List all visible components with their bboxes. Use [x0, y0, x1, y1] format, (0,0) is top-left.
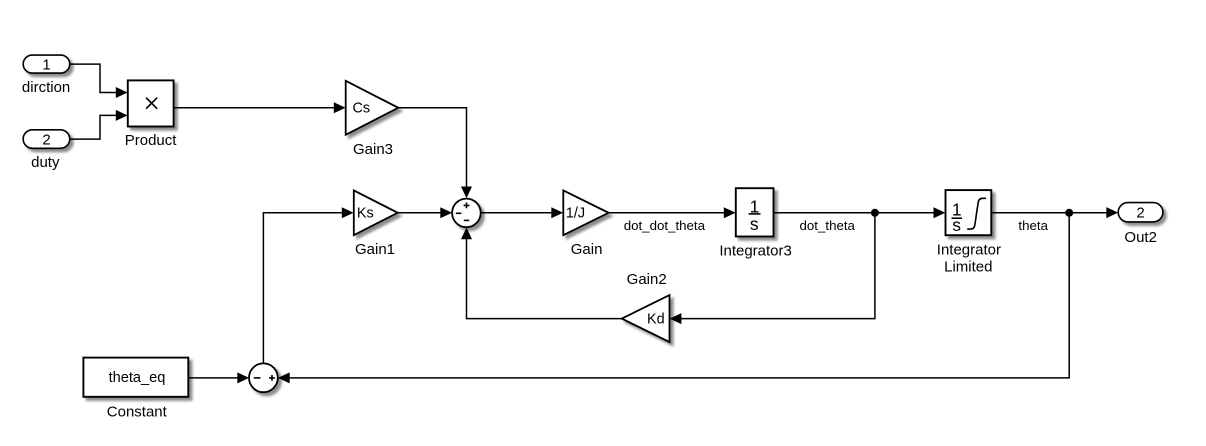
svg-text:theta_eq: theta_eq	[109, 370, 166, 386]
svg-text:s: s	[952, 215, 961, 235]
wire Constant to Sum2 left	[188, 372, 249, 383]
outport Out2 (oval)	[1118, 203, 1163, 222]
wire Sum1 to Gain	[481, 207, 563, 218]
inport 2 (oval)	[23, 130, 69, 149]
junction theta node	[1065, 209, 1073, 217]
label Integrator Limited (2 lines)	[937, 242, 1001, 276]
svg-text:1/J: 1/J	[566, 205, 585, 221]
gain Gain3 (Cs)	[346, 81, 399, 135]
wire Gain1 to Sum1 left	[398, 207, 452, 218]
sum Sum2	[249, 363, 278, 392]
gain Gain1 (Ks)	[354, 190, 398, 235]
wire inport2 to Product port2	[70, 110, 128, 139]
svg-text:dirction: dirction	[22, 79, 70, 96]
wire Integrator3 to Integrator Limited	[774, 207, 946, 218]
sum Sum1	[452, 199, 481, 228]
svg-text:Cs: Cs	[353, 101, 371, 117]
wire inport1 to Product port1	[70, 64, 128, 98]
svg-text:dot_theta: dot_theta	[800, 218, 856, 233]
wire junction dot_theta down to Gain2 input	[670, 213, 875, 324]
svg-text:Product: Product	[125, 132, 178, 149]
svg-text:Gain: Gain	[571, 241, 603, 258]
svg-text:Limited: Limited	[944, 259, 992, 276]
Integrator Limited block	[946, 190, 992, 235]
svg-text:Gain3: Gain3	[353, 141, 393, 158]
svg-text:2: 2	[42, 131, 50, 148]
Constant block theta_eq	[83, 358, 188, 397]
svg-text:Kd: Kd	[647, 311, 665, 327]
svg-text:duty: duty	[31, 154, 60, 171]
gain Gain2 (Kd, left-pointing)	[622, 295, 670, 342]
svg-text:Gain1: Gain1	[355, 241, 395, 258]
svg-text:Out2: Out2	[1124, 229, 1157, 246]
svg-text:Integrator: Integrator	[937, 242, 1001, 259]
svg-text:Constant: Constant	[107, 404, 168, 421]
svg-text:dot_dot_theta: dot_dot_theta	[624, 218, 706, 233]
Integrator3 block	[736, 188, 774, 236]
wire Integrator Limited to Out2	[991, 207, 1118, 218]
wire Gain to Integrator3	[609, 207, 736, 218]
svg-text:theta: theta	[1018, 218, 1048, 233]
inport 1 (oval)	[23, 55, 69, 73]
svg-text:1: 1	[42, 56, 50, 73]
svg-text:Ks: Ks	[357, 206, 374, 222]
svg-text:Gain2: Gain2	[627, 271, 667, 288]
junction dot_theta node	[871, 209, 879, 217]
wire Gain3 to Sum1 top	[398, 108, 472, 199]
svg-text:s: s	[750, 214, 759, 234]
svg-text:Integrator3: Integrator3	[719, 242, 792, 259]
wire Product to Gain3	[174, 102, 346, 113]
wire Sum2 to Gain1	[263, 207, 353, 363]
wire junction theta down to Sum2 right	[278, 213, 1069, 384]
Product block	[128, 80, 174, 126]
gain Gain (1/J)	[563, 190, 608, 235]
svg-text:2: 2	[1136, 205, 1144, 222]
wire Gain2 to Sum1 bottom	[461, 228, 622, 319]
